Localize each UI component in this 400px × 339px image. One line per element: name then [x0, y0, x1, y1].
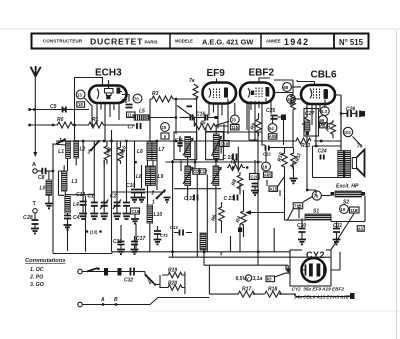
capacitor C14 — [175, 136, 183, 152]
svg-text:13: 13 — [77, 92, 82, 97]
tube CY2 — [302, 249, 326, 259]
svg-text:Commutations: Commutations — [25, 258, 66, 264]
circled 13 — [76, 90, 92, 124]
resistor R17 — [237, 287, 255, 298]
resistor R2 — [104, 141, 113, 164]
capacitor C22 gnd — [154, 226, 169, 244]
box 18 — [77, 102, 85, 107]
switch lever row 1 — [56, 138, 66, 145]
terminal T — [33, 201, 38, 213]
circled 68 — [283, 83, 301, 92]
svg-text:L9: L9 — [158, 174, 164, 180]
scan edge lines — [0, 28, 400, 30]
box contact b2 — [118, 268, 122, 276]
svg-text:11b: 11b — [231, 125, 238, 130]
capacitor C25 — [266, 101, 286, 120]
wire bus b+ left — [53, 252, 112, 254]
node junction A — [52, 170, 54, 172]
svg-text:C1: C1 — [88, 194, 95, 200]
wire AVC line y141 — [56, 138, 341, 144]
wire ech3 pins down — [97, 103, 119, 141]
svg-text:18: 18 — [263, 165, 268, 170]
resistor R4 — [235, 206, 246, 237]
svg-text:L4: L4 — [73, 202, 79, 208]
circled 54 — [268, 124, 277, 133]
trimmer C3 — [110, 141, 121, 219]
box 71B — [293, 203, 303, 209]
box 63 — [357, 226, 364, 232]
node R3 — [175, 98, 177, 100]
capacitor C18 — [220, 141, 230, 147]
svg-text:C6: C6 — [121, 99, 128, 105]
bottom switch wire — [82, 298, 209, 305]
IF1 secondary coils — [174, 166, 221, 189]
svg-text:EF9: EF9 — [207, 68, 226, 79]
diag 102 speaker — [353, 137, 362, 146]
svg-text:L5: L5 — [139, 109, 145, 115]
capacitor C26 — [341, 107, 365, 118]
capacitor C7 — [128, 123, 141, 131]
svg-text:A65: A65 — [264, 173, 272, 178]
wire third bus — [204, 265, 288, 273]
svg-text:L3: L3 — [72, 179, 78, 185]
wire transformer bottom — [313, 146, 350, 178]
resistor R5 — [194, 117, 262, 132]
svg-text:C27: C27 — [305, 111, 314, 117]
svg-text:L0: L0 — [40, 186, 46, 192]
svg-text:C17: C17 — [136, 236, 145, 242]
capacitor C20 — [250, 174, 260, 196]
wire ebf2 pins down — [247, 98, 266, 141]
svg-text:C13: C13 — [76, 192, 85, 198]
wire main lower bus — [112, 251, 290, 253]
capacitor C11 — [113, 236, 125, 254]
box C17 — [199, 169, 208, 174]
resistor R20 — [162, 281, 185, 291]
rectifier box — [290, 250, 331, 286]
svg-text:C72: C72 — [160, 233, 168, 238]
svg-text:2: 2 — [151, 191, 155, 197]
svg-text:N° 515: N° 515 — [339, 38, 364, 47]
svg-text:L1: L1 — [58, 149, 64, 155]
IF2 primary coil — [206, 126, 224, 160]
wire diag A15 — [267, 177, 285, 187]
padder coil — [200, 233, 206, 250]
node R1 — [73, 124, 75, 126]
coil L10 — [147, 205, 162, 223]
heater note 6.5V — [236, 275, 263, 282]
capacitor C28 — [23, 213, 39, 228]
node R0 — [52, 124, 54, 126]
ground L0 — [45, 204, 53, 209]
capacitor C33 — [184, 195, 198, 203]
wire cy2 to bus — [286, 252, 340, 270]
svg-text:C8: C8 — [38, 175, 45, 181]
svg-text:102: 102 — [344, 130, 352, 135]
box C15b — [131, 208, 140, 224]
resistor R18 — [265, 287, 282, 298]
wire switch row C32 — [82, 271, 145, 273]
svg-text:L2: L2 — [80, 147, 86, 153]
trimmer C1 — [88, 160, 99, 219]
pot arrow R4 — [245, 210, 251, 214]
svg-text:11a: 11a — [127, 112, 134, 117]
svg-text:CONSTRUCTEUR: CONSTRUCTEUR — [43, 39, 83, 44]
svg-text:A05: A05 — [269, 134, 277, 139]
circled 102 — [343, 127, 352, 136]
output transformer — [338, 151, 351, 178]
capacitor C24 — [318, 149, 327, 160]
capacitor C13 — [76, 141, 87, 219]
resistor R3 — [150, 91, 198, 142]
box A03 — [320, 123, 329, 128]
terminal heater — [345, 293, 355, 299]
capacitor C15 — [138, 165, 146, 202]
wire diag S1 — [331, 214, 354, 250]
svg-text:A: A — [32, 162, 36, 168]
svg-text:ECH3: ECH3 — [95, 68, 122, 79]
svg-text:B: B — [114, 297, 118, 303]
svg-text:PARIS: PARIS — [145, 40, 158, 45]
switch terminal 2 — [78, 302, 83, 307]
capacitor C10 — [126, 141, 139, 202]
main vertical wires — [86, 95, 342, 252]
svg-text:70: 70 — [134, 96, 139, 101]
svg-text:A15: A15 — [269, 187, 277, 192]
capacitor C17b — [131, 236, 146, 254]
svg-text:ANNEE: ANNEE — [266, 39, 281, 44]
svg-text:3,1a: 3,1a — [253, 276, 263, 282]
wire grid line y109 — [30, 109, 90, 111]
svg-text:C5: C5 — [50, 104, 57, 110]
wire verts to bus — [173, 252, 258, 265]
wire CBL6 top — [297, 80, 315, 85]
coil L3 — [62, 171, 78, 191]
svg-text:18: 18 — [78, 102, 83, 107]
svg-text:DUCRETET: DUCRETET — [90, 37, 143, 47]
svg-text:CY2 35a EF9 A19 EBF2: CY2 35a EF9 A19 EBF2 — [292, 287, 345, 292]
capacitor C5 — [50, 104, 66, 113]
wire diag 71B — [288, 208, 294, 220]
resistor R14 — [324, 120, 335, 138]
svg-text:C17: C17 — [200, 169, 208, 174]
svg-text:7a: 7a — [357, 144, 363, 150]
choke S1 — [305, 209, 331, 221]
label 13 row — [86, 230, 102, 235]
wire osc verts — [65, 158, 76, 196]
wire left lower verts — [68, 141, 122, 251]
svg-text:R20: R20 — [168, 281, 177, 287]
ground L4 — [64, 225, 72, 230]
resistor R7 — [227, 160, 245, 171]
trimmer C2 — [100, 160, 108, 219]
svg-text:71B: 71B — [294, 204, 302, 209]
box C05 — [193, 169, 202, 174]
svg-text:C15: C15 — [132, 209, 140, 214]
svg-text:R19: R19 — [168, 268, 177, 274]
wire S1 net — [285, 196, 366, 222]
wire R10 pot arm — [248, 169, 285, 220]
capacitor C12 — [263, 146, 271, 157]
svg-text:A.E.G. 421 GW: A.E.G. 421 GW — [202, 38, 253, 47]
circled 60 — [287, 95, 301, 104]
wire CBL6 plate — [335, 95, 341, 151]
svg-text:C10: C10 — [126, 183, 135, 189]
svg-text:L7: L7 — [159, 147, 165, 153]
coil L2 — [74, 141, 86, 159]
terminal blk mid — [238, 224, 242, 252]
svg-text:R13: R13 — [301, 143, 310, 149]
capacitor C31 — [333, 222, 343, 245]
svg-text:Excit. HP: Excit. HP — [336, 184, 359, 190]
coil L5 — [127, 109, 153, 121]
commutations note — [25, 258, 66, 288]
wire resistor join — [160, 272, 185, 295]
ground lever2 — [164, 198, 171, 203]
svg-text:(13): (13) — [90, 230, 98, 235]
svg-text:C16: C16 — [196, 112, 205, 118]
svg-text:1942: 1942 — [284, 37, 310, 47]
wire heater bottom — [209, 265, 350, 296]
resistor R16 — [118, 141, 128, 164]
wire x293 riser — [274, 80, 296, 148]
svg-text:54: 54 — [269, 126, 274, 131]
wire misc h — [153, 118, 341, 197]
svg-text:11B: 11B — [350, 208, 357, 213]
svg-text:3. GO: 3. GO — [30, 282, 44, 288]
circled 70a — [133, 94, 142, 103]
antenna arrowhead — [33, 152, 37, 157]
wire antenna lead — [34, 77, 36, 154]
svg-text:C 23: C 23 — [224, 196, 235, 202]
svg-text:CBL6: CBL6 — [311, 70, 338, 81]
switch lever band2 — [151, 189, 166, 205]
box 6 — [161, 133, 169, 139]
svg-text:C18: C18 — [221, 142, 229, 147]
box 11a — [127, 112, 136, 117]
wire A riser — [53, 144, 66, 254]
wire second bus — [169, 256, 331, 259]
svg-text:C13: C13 — [170, 225, 178, 230]
svg-text:63: 63 — [358, 226, 363, 231]
svg-text:V: V — [246, 276, 249, 281]
antenna — [31, 66, 41, 77]
wire cbl6 pins down — [307, 100, 325, 147]
svg-text:EBF2: EBF2 — [249, 68, 275, 79]
coil L8 L9 pair — [136, 166, 164, 186]
svg-text:7a: 7a — [189, 78, 195, 84]
heater squiggle 7a — [189, 78, 198, 141]
capacitor C32 — [124, 268, 145, 284]
svg-text:6,5V: 6,5V — [236, 276, 247, 282]
box A65 — [264, 172, 273, 178]
switch cluster levers — [145, 272, 160, 286]
switch terminal 1 — [78, 268, 100, 274]
svg-text:C 33: C 33 — [184, 196, 195, 202]
svg-text:R1: R1 — [92, 117, 99, 123]
capacitor C16 — [180, 112, 229, 126]
svg-text:C7: C7 — [128, 125, 135, 131]
svg-text:3: 3 — [88, 150, 91, 156]
svg-text:C32: C32 — [124, 278, 133, 284]
box contact b1 — [104, 268, 108, 276]
resistor R0 — [28, 124, 31, 127]
svg-text:34a CBL6 A13 ECH3 A18: 34a CBL6 A13 ECH3 A18 — [294, 295, 349, 300]
contact A — [100, 297, 105, 306]
svg-text:C22: C22 — [263, 152, 271, 157]
svg-text:L6: L6 — [137, 149, 143, 155]
svg-text:C24: C24 — [318, 149, 327, 155]
circled 19 — [340, 205, 349, 214]
box 63b — [266, 273, 290, 282]
cap bar — [187, 105, 193, 107]
resistor R11 — [291, 150, 303, 169]
wire ef9 pins down — [209, 99, 228, 135]
wire x176 riser — [175, 99, 177, 134]
svg-text:1. OC: 1. OC — [30, 267, 44, 273]
svg-text:8.3: 8.3 — [321, 109, 327, 114]
svg-text:A: A — [100, 297, 105, 303]
svg-text:MODELE: MODELE — [175, 39, 193, 44]
capacitor C23 — [224, 195, 238, 203]
circled 18b — [262, 162, 271, 171]
capacitor C19 — [223, 154, 237, 162]
resistor R10 — [277, 150, 288, 169]
node IF2 — [215, 160, 218, 163]
resistor R6 — [210, 202, 224, 233]
capacitor C6 — [121, 95, 133, 108]
svg-text:1: 1 — [152, 200, 155, 206]
wire L3 frame — [59, 166, 95, 196]
circled 70b — [230, 115, 239, 124]
speaker — [352, 144, 364, 177]
ground R11 — [290, 169, 298, 183]
trimmer C9 — [123, 141, 131, 219]
svg-text:2. PO: 2. PO — [29, 275, 43, 281]
svg-text:15: 15 — [162, 125, 167, 130]
ground T — [31, 229, 39, 234]
capacitor C4 — [64, 213, 80, 224]
box 11B — [350, 207, 360, 213]
title block frame — [32, 34, 369, 49]
wire ECH3 grid frame — [75, 78, 103, 141]
switch lever row 2 — [88, 140, 101, 156]
wire EBF2 top — [259, 78, 270, 83]
capacitor C8 — [37, 168, 53, 181]
field coil S2 — [331, 191, 366, 206]
svg-text:19: 19 — [341, 207, 346, 212]
box 11b — [231, 125, 240, 131]
svg-text:R3: R3 — [152, 91, 159, 97]
circled 15 — [161, 123, 170, 132]
circled 99 — [319, 115, 328, 124]
svg-text:70: 70 — [231, 117, 236, 122]
coil L4 — [65, 196, 79, 213]
circled 74 — [303, 191, 331, 202]
svg-text:63: 63 — [267, 277, 272, 282]
capacitor C13b — [170, 225, 192, 236]
box A15 — [269, 186, 278, 192]
svg-text:L10: L10 — [154, 212, 163, 218]
resistor C27 — [302, 104, 319, 190]
svg-text:R0: R0 — [57, 117, 64, 123]
contact B — [114, 297, 118, 306]
resistor R8 — [231, 172, 243, 192]
node x176b — [175, 116, 177, 118]
coil L1 — [58, 142, 70, 159]
coil L6 L7 pair — [137, 142, 165, 160]
box A05b — [268, 134, 277, 140]
svg-text:C28: C28 — [23, 215, 33, 221]
svg-text:C4: C4 — [73, 215, 80, 221]
IF1 box — [174, 132, 197, 160]
wire osc box top — [112, 191, 165, 193]
resistor R9 — [250, 113, 262, 136]
terminal A — [32, 162, 37, 173]
resistor R19 — [162, 268, 185, 278]
node blobs — [33, 108, 317, 253]
svg-text:68: 68 — [284, 85, 289, 90]
wire diag grid — [177, 106, 194, 119]
capacitor C30 — [297, 218, 306, 244]
node plate — [340, 112, 342, 114]
circled 8.3 — [320, 107, 329, 116]
coil L0 — [40, 171, 52, 203]
wire extra verts — [231, 228, 275, 252]
